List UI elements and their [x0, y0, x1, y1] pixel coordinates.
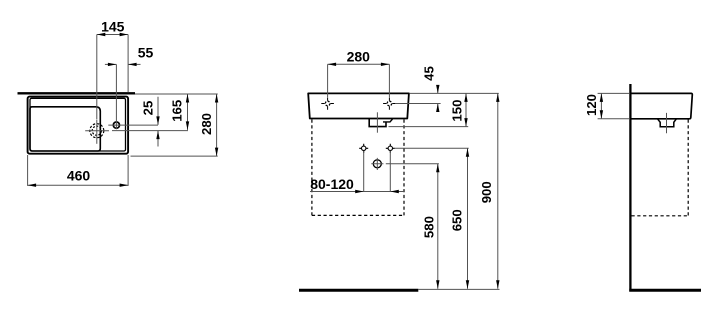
supply point left: [359, 144, 368, 153]
trap centerline (side view): [666, 113, 668, 133]
svg-text:145: 145: [101, 19, 125, 35]
waste outlet cross lines: [371, 158, 383, 170]
svg-text:25: 25: [140, 101, 155, 116]
floor thin line: [418, 288, 499, 290]
dim 45 upper arrow: [436, 85, 439, 94]
extension waste right: [386, 163, 439, 165]
top extension line (wall): [135, 93, 218, 95]
svg-text:165: 165: [169, 100, 184, 122]
basin profile (side view): [630, 93, 692, 118]
wall line (side view): [629, 84, 631, 292]
right mounting hole ticks: [383, 97, 396, 109]
svg-text:150: 150: [450, 100, 465, 122]
dim 45 upper line: [437, 85, 439, 93]
right mounting hole dashed circle: [387, 101, 392, 106]
supply point right: [386, 144, 395, 153]
dim 150 bottom arrow: [464, 118, 467, 127]
floor line (side view): [629, 289, 701, 292]
dim 460 right arrow: [120, 184, 129, 187]
extension hole line right: [396, 103, 441, 105]
dim 580 top arrow: [436, 164, 439, 173]
dim 45 lower arrow: [436, 104, 439, 113]
svg-text:80-120: 80-120: [310, 176, 354, 192]
left mounting hole ticks: [321, 97, 334, 109]
dim 165 bottom arrow: [186, 121, 189, 130]
dim 120 bottom arrow: [600, 110, 603, 119]
dim 280 (front) left arrow: [328, 63, 337, 66]
extension line faucet up: [115, 64, 117, 129]
dim 55 left segment: [105, 63, 117, 65]
dim 280 line: [216, 94, 218, 156]
dim 25 upper arrow: [156, 116, 159, 125]
dim 145 left arrow: [97, 33, 106, 36]
dim 120 top arrow: [600, 93, 603, 102]
drain centerline extension to dims: [112, 130, 188, 132]
dim 80-120 left arrow: [355, 190, 364, 193]
dim 280 (front) right arrow: [381, 63, 390, 66]
trap step (front): [383, 119, 393, 122]
trap cup (side view): [658, 119, 677, 127]
dim 145 right arrow: [120, 33, 129, 36]
dim 55 right arrow: [128, 63, 137, 66]
dim 145 line: [97, 34, 128, 36]
extension supply right: [395, 147, 469, 149]
dashed outline right (side): [687, 120, 689, 216]
extension line basin left down: [27, 155, 29, 186]
dim 150 line: [465, 93, 467, 126]
extension left hole up: [327, 64, 329, 97]
dim 25 lower arrow: [156, 131, 159, 140]
dim 55 right segment: [128, 63, 140, 65]
dashed outline bottom (side): [632, 215, 689, 217]
svg-text:580: 580: [421, 216, 436, 238]
left mounting hole dashed circle: [325, 101, 330, 106]
dim 650 line: [467, 148, 469, 288]
dim 580 bottom arrow: [436, 280, 439, 289]
extension line from dim145 to drain: [96, 35, 98, 120]
svg-text:55: 55: [138, 45, 154, 61]
dashed outline left (front): [311, 120, 313, 216]
dim 80-120 right arrow: [390, 190, 399, 193]
wall line (top view): [18, 92, 136, 94]
floor line (front, thick): [299, 289, 418, 292]
dim 460 line: [28, 184, 129, 186]
svg-text:280: 280: [347, 48, 371, 64]
dim 165 top arrow: [186, 94, 189, 103]
extension trap bottom right: [389, 126, 469, 128]
faucet centerline extension: [108, 124, 158, 126]
svg-text:460: 460: [67, 168, 91, 184]
dim 460 left arrow: [28, 184, 36, 187]
svg-text:900: 900: [479, 181, 494, 203]
bowl inner outline: [30, 107, 100, 151]
extension right hole up: [388, 64, 390, 97]
dashed outline bottom (front): [312, 214, 404, 216]
dim 25 lower line: [157, 131, 159, 147]
svg-text:45: 45: [421, 66, 436, 81]
dim 120 line: [600, 93, 602, 118]
dim 580 line: [437, 164, 439, 289]
drain horizontal centerline: [85, 130, 109, 132]
extension line right edge up: [127, 35, 129, 93]
svg-text:120: 120: [584, 94, 599, 116]
dim 900 top arrow: [496, 93, 499, 102]
svg-text:280: 280: [199, 113, 214, 135]
drain inner dashed circle: [92, 126, 101, 135]
dim 150 top arrow: [464, 93, 467, 102]
extension basin top left (side): [598, 92, 629, 94]
faucet hole (top view): [113, 122, 119, 128]
basin rim inner line: [30, 98, 126, 151]
dim 900 bottom arrow: [496, 280, 499, 289]
drain outer dashed circle: [90, 124, 104, 138]
svg-text:650: 650: [450, 209, 465, 231]
bottom extension line (basin bottom): [131, 155, 218, 157]
dim 650 bottom arrow: [466, 280, 469, 289]
waste outlet crosshair circle: [373, 160, 381, 168]
extension basin top right: [409, 92, 498, 94]
extension basin bottom left (side): [598, 118, 629, 120]
trap box (front): [369, 119, 386, 127]
dim 280 top arrow: [215, 94, 218, 103]
dim 900 line: [497, 93, 499, 288]
drop line right supply: [389, 151, 391, 192]
dashed outline right (front): [403, 120, 405, 216]
drain vertical centerline: [96, 120, 98, 144]
dim 165 line: [187, 94, 189, 130]
dim 650 top arrow: [466, 148, 469, 157]
dim 55 left arrow: [108, 63, 117, 66]
dim 280 bottom arrow: [215, 148, 218, 157]
dim 80-120 line: [310, 191, 404, 193]
basin outer outline (top view): [28, 97, 129, 154]
dim 25 upper line: [157, 97, 159, 125]
extension line basin right down: [127, 155, 129, 186]
dim 45 lower line: [437, 104, 439, 112]
drop line left supply: [363, 151, 365, 192]
trap centerline (front): [376, 112, 378, 132]
dim 280 (front) line: [328, 63, 390, 65]
basin front outline: [308, 93, 409, 118]
